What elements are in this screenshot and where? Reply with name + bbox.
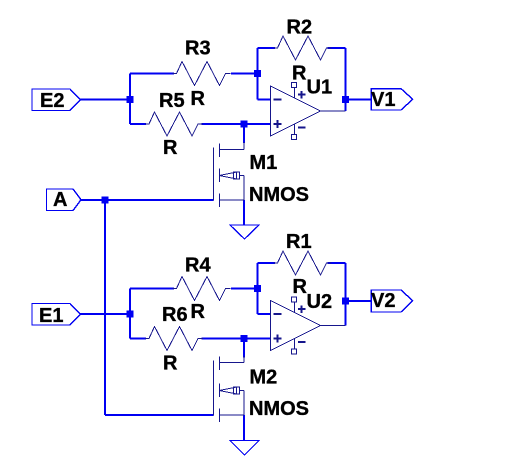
svg-text:R: R bbox=[163, 137, 178, 159]
svg-text:R: R bbox=[163, 353, 178, 375]
svg-text:V1: V1 bbox=[371, 89, 395, 111]
svg-text:V2: V2 bbox=[371, 290, 395, 312]
svg-text:U1: U1 bbox=[307, 77, 333, 99]
svg-text:E1: E1 bbox=[39, 305, 63, 327]
svg-text:R: R bbox=[293, 276, 308, 298]
svg-text:R2: R2 bbox=[287, 17, 313, 39]
svg-text:R3: R3 bbox=[185, 38, 211, 60]
svg-text:A: A bbox=[53, 189, 67, 211]
svg-text:M1: M1 bbox=[250, 152, 278, 174]
svg-text:R5: R5 bbox=[159, 90, 185, 112]
svg-text:NMOS: NMOS bbox=[249, 398, 309, 420]
svg-text:E2: E2 bbox=[40, 90, 64, 112]
svg-text:R1: R1 bbox=[286, 231, 312, 253]
svg-text:R: R bbox=[292, 63, 307, 85]
svg-text:R: R bbox=[191, 88, 206, 110]
svg-text:R4: R4 bbox=[185, 255, 211, 277]
svg-text:R: R bbox=[191, 301, 206, 323]
svg-text:R6: R6 bbox=[162, 304, 188, 326]
svg-text:U2: U2 bbox=[307, 291, 333, 313]
svg-text:NMOS: NMOS bbox=[249, 184, 309, 206]
svg-text:M2: M2 bbox=[250, 367, 278, 389]
